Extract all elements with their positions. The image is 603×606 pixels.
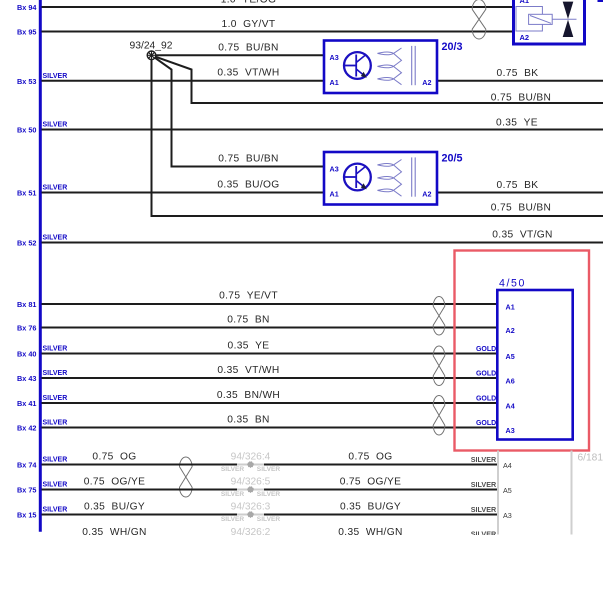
svg-text:0.75 OG: 0.75 OG	[92, 452, 136, 463]
svg-text:Bx 42: Bx 42	[17, 424, 36, 433]
svg-text:GOLD: GOLD	[476, 395, 496, 402]
svg-text:6/181: 6/181	[578, 452, 603, 463]
svg-text:0.75 BU/BN: 0.75 BU/BN	[491, 92, 551, 103]
connector 4/50 box	[497, 290, 572, 440]
svg-text:SILVER: SILVER	[43, 235, 68, 242]
splice 94/326:4	[221, 452, 280, 473]
twisted pair Bx81/Bx76	[433, 297, 445, 336]
svg-text:A2: A2	[422, 189, 431, 198]
svg-text:SILVER: SILVER	[471, 505, 497, 514]
node 93/24_92 junction	[147, 51, 156, 60]
svg-text:A2: A2	[520, 33, 530, 42]
svg-text:SILVER: SILVER	[471, 455, 497, 464]
svg-text:94/326:4: 94/326:4	[231, 452, 271, 463]
wire 20/3 A2 output	[437, 80, 603, 82]
svg-text:Bx 15: Bx 15	[17, 511, 36, 520]
wire junction drop to 20/5 A3	[152, 55, 325, 166]
svg-text:Bx 95: Bx 95	[17, 28, 36, 37]
svg-text:0.35 BU/GY: 0.35 BU/GY	[340, 502, 401, 513]
connector 6/181 right edge	[571, 451, 573, 535]
splice 94/326:3	[221, 502, 280, 523]
svg-text:1.0 GY/VT: 1.0 GY/VT	[222, 19, 276, 30]
svg-text:SILVER: SILVER	[257, 466, 281, 473]
wire junction drop to row y216	[152, 55, 603, 216]
svg-text:A1: A1	[520, 0, 530, 5]
svg-text:SILVER: SILVER	[43, 457, 68, 464]
wire Bx 81	[17, 300, 497, 309]
svg-text:SILVER: SILVER	[43, 346, 68, 353]
svg-text:GOLD: GOLD	[476, 420, 496, 427]
wire junction to 20/3 A3	[152, 54, 325, 56]
wire Bx 94	[17, 3, 512, 12]
svg-text:0.75 OG/YE: 0.75 OG/YE	[340, 477, 402, 488]
relay U1 box	[514, 0, 585, 44]
twisted pair Bx41/Bx42	[433, 395, 445, 435]
svg-text:4/50: 4/50	[499, 278, 526, 290]
svg-text:A4: A4	[506, 401, 515, 410]
svg-text:SILVER: SILVER	[43, 185, 68, 192]
svg-text:Bx 74: Bx 74	[17, 461, 37, 470]
svg-text:0.75 BK: 0.75 BK	[497, 68, 539, 79]
svg-text:A3: A3	[330, 164, 339, 173]
svg-text:Bx 43: Bx 43	[17, 374, 36, 383]
svg-text:Bx 53: Bx 53	[17, 77, 36, 86]
svg-text:A3: A3	[503, 511, 512, 520]
svg-text:Bx 40: Bx 40	[17, 350, 36, 359]
wire Bx 41	[17, 395, 497, 408]
twisted pair Bx74/Bx75	[180, 457, 193, 497]
svg-text:0.75 BN: 0.75 BN	[227, 315, 269, 326]
wire Bx 75	[17, 482, 497, 495]
wire Bx 51	[17, 185, 324, 198]
wire Bx 95	[17, 28, 512, 37]
svg-text:94/326:5: 94/326:5	[231, 477, 271, 488]
svg-text:93/24_92: 93/24_92	[130, 40, 173, 51]
svg-text:SILVER: SILVER	[43, 73, 68, 80]
svg-text:A1: A1	[330, 189, 339, 198]
svg-text:20/5: 20/5	[442, 152, 463, 164]
svg-text:SILVER: SILVER	[221, 516, 245, 523]
svg-text:0.35 BN: 0.35 BN	[227, 415, 269, 426]
svg-text:GOLD: GOLD	[476, 346, 496, 353]
svg-text:SILVER: SILVER	[43, 507, 68, 514]
svg-text:Bx 75: Bx 75	[17, 486, 36, 495]
relay suppressor diode	[563, 2, 574, 37]
svg-text:Bx 50: Bx 50	[17, 126, 36, 135]
svg-text:SILVER: SILVER	[221, 466, 245, 473]
wire Bx 40	[17, 346, 497, 359]
relay coil K1	[516, 7, 577, 32]
svg-text:Bx 94: Bx 94	[17, 3, 37, 12]
wire Bx 43	[17, 370, 497, 383]
svg-text:0.75 OG: 0.75 OG	[348, 452, 392, 463]
svg-text:SILVER: SILVER	[43, 370, 68, 377]
svg-text:Bx 51: Bx 51	[17, 189, 36, 198]
svg-text:0.35 YE: 0.35 YE	[496, 117, 538, 128]
connector 6/181 left edge	[497, 451, 499, 535]
svg-text:SILVER: SILVER	[43, 122, 68, 129]
component 20/3 (driver)	[324, 41, 463, 94]
wire junction drop to row y103	[152, 55, 603, 103]
relay cut label fragment	[598, 0, 603, 2]
svg-text:0.75 BU/BN: 0.75 BU/BN	[218, 154, 278, 165]
svg-text:SILVER: SILVER	[221, 491, 245, 498]
svg-text:SILVER: SILVER	[471, 480, 497, 489]
wire Bx 74	[17, 457, 497, 470]
svg-text:SILVER: SILVER	[43, 395, 68, 402]
svg-text:0.35 YE: 0.35 YE	[228, 341, 270, 352]
svg-text:0.75 YE/VT: 0.75 YE/VT	[219, 291, 278, 302]
svg-text:0.35 VT/GN: 0.35 VT/GN	[492, 229, 552, 240]
svg-text:A1: A1	[330, 78, 339, 87]
component 20/5 (driver)	[324, 152, 463, 205]
svg-text:A5: A5	[506, 352, 515, 361]
svg-text:A1: A1	[506, 302, 515, 311]
wire Bx 76	[17, 324, 497, 333]
wire Bx 42	[17, 420, 497, 433]
svg-text:20/3: 20/3	[442, 41, 463, 53]
svg-text:Bx 76: Bx 76	[17, 324, 36, 333]
clip (white mask below drawing)	[0, 535, 603, 606]
svg-text:A2: A2	[506, 326, 515, 335]
wire Bx 53	[17, 73, 324, 86]
svg-text:0.75 BK: 0.75 BK	[497, 180, 539, 191]
svg-text:A4: A4	[503, 461, 512, 470]
svg-text:0.35 BU/OG: 0.35 BU/OG	[217, 180, 279, 191]
wire Bx 52	[17, 235, 603, 248]
svg-text:SILVER: SILVER	[257, 491, 281, 498]
svg-text:0.75 BU/BN: 0.75 BU/BN	[218, 43, 278, 54]
svg-text:94/326:3: 94/326:3	[231, 502, 271, 513]
svg-text:SILVER: SILVER	[43, 482, 68, 489]
wire Bx 15	[17, 507, 497, 520]
highlight box (red)	[455, 251, 590, 451]
svg-text:A6: A6	[506, 376, 515, 385]
svg-text:SILVER: SILVER	[257, 516, 281, 523]
svg-text:Bx 41: Bx 41	[17, 399, 36, 408]
svg-text:A2: A2	[422, 78, 431, 87]
bus bar (left vertical blue line)	[39, 0, 42, 532]
svg-text:GOLD: GOLD	[476, 370, 496, 377]
svg-text:Bx 81: Bx 81	[17, 300, 36, 309]
svg-text:1.0 YE/OG: 1.0 YE/OG	[221, 0, 277, 6]
svg-text:A3: A3	[506, 426, 515, 435]
twisted pair relay wires	[472, 0, 486, 39]
svg-text:0.75 OG/YE: 0.75 OG/YE	[84, 477, 146, 488]
svg-text:0.35 BN/WH: 0.35 BN/WH	[217, 390, 280, 401]
svg-text:0.35 VT/WH: 0.35 VT/WH	[217, 68, 279, 79]
svg-text:A3: A3	[330, 53, 339, 62]
twisted pair Bx40/Bx43	[433, 346, 445, 386]
svg-text:Bx 52: Bx 52	[17, 239, 36, 248]
splice 94/326:5	[221, 477, 280, 498]
svg-text:SILVER: SILVER	[43, 420, 68, 427]
svg-text:0.35 BU/GY: 0.35 BU/GY	[84, 502, 145, 513]
wire Bx 50	[17, 122, 603, 135]
wire 20/5 A2 output	[437, 192, 603, 194]
svg-text:0.75 BU/BN: 0.75 BU/BN	[491, 203, 551, 214]
svg-text:A5: A5	[503, 486, 512, 495]
svg-text:0.35 VT/WH: 0.35 VT/WH	[217, 365, 279, 376]
